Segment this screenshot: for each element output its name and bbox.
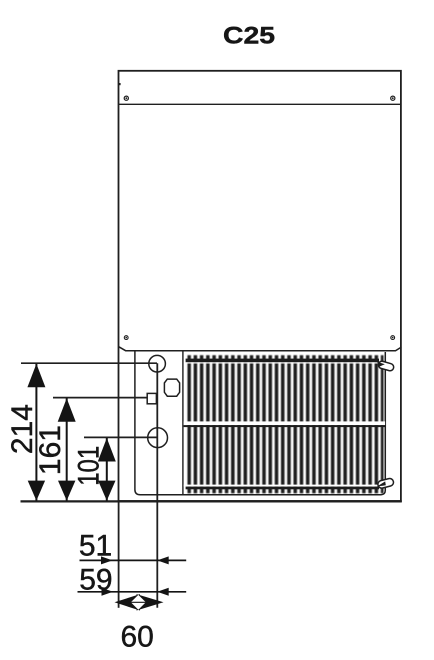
svg-text:59: 59 xyxy=(79,563,112,596)
svg-text:51: 51 xyxy=(79,530,112,563)
svg-text:161: 161 xyxy=(34,425,67,475)
svg-text:60: 60 xyxy=(121,620,154,653)
svg-text:101: 101 xyxy=(72,446,105,486)
svg-text:C25: C25 xyxy=(223,22,275,49)
